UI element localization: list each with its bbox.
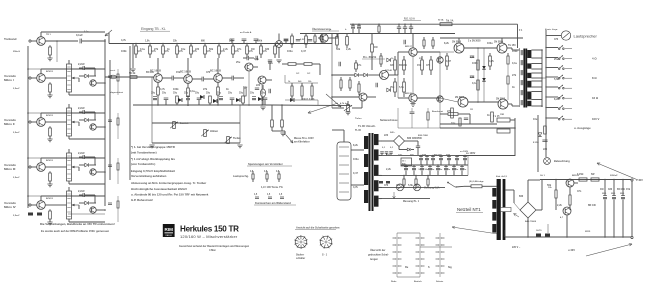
svg-text:10u: 10u [181,48,186,51]
svg-text:25u: 25u [173,92,178,95]
svg-text:2,2k: 2,2k [386,168,391,171]
svg-text:GL70: GL70 [536,230,542,232]
svg-text:220 V ~: 220 V ~ [512,246,521,249]
svg-text:220: 220 [195,48,200,51]
svg-text:Sig: Sig [448,266,452,269]
svg-text:TR 1: TR 1 [46,34,52,36]
svg-text:B30 C800/500: B30 C800/500 [407,138,423,140]
svg-text:25u: 25u [184,92,189,95]
svg-text:Mikro I: Mikro I [4,78,14,82]
svg-text:B40 C5000: B40 C5000 [525,220,537,223]
svg-text:47n: 47n [577,190,582,193]
svg-text:Mikro III: Mikro III [4,167,16,171]
svg-text:120/160 W – Mischverstärker: 120/160 W – Mischverstärker [180,234,238,239]
svg-text:2,5mV: 2,5mV [13,132,20,134]
svg-text:(mit Tonabnehmer): (mit Tonabnehmer) [131,151,157,155]
svg-text:25u: 25u [236,61,241,64]
svg-text:Beleuchtung: Beleuchtung [554,159,570,163]
svg-text:25u: 25u [390,86,395,89]
svg-text:R.L. 83,2 B: R.L. 83,2 B [363,55,376,59]
svg-text:2,5mV: 2,5mV [13,88,20,90]
svg-text:4,7k: 4,7k [160,88,165,91]
svg-text:8,2k: 8,2k [444,42,449,45]
svg-text:2200: 2200 [611,193,615,195]
svg-text:Schutz: Schutz [436,280,444,283]
svg-text:27k: 27k [203,88,208,91]
svg-text:47n: 47n [237,48,242,51]
svg-text:Abmessung an M.G. Entzerrergr: Abmessung an M.G. Entzerrergruppen-Ausg.… [131,181,207,185]
svg-text:u. Abstände 80 bis 120 und Re: u. Abstände 80 bis 120 und Re: Pst 150 T… [131,193,209,197]
svg-text:Klirrf. 0,4%: Klirrf. 0,4% [302,98,315,101]
svg-text:0,1u: 0,1u [84,68,89,70]
svg-text:RADIO: RADIO [165,234,172,237]
svg-text:Lautst.: Lautst. [180,121,189,125]
svg-text:Netzteil NT1: Netzteil NT1 [457,207,481,212]
svg-text:*) 1. bei Verstärkergruppe 150: *) 1. bei Verstärkergruppe 150TR [131,145,175,149]
svg-text:2200: 2200 [602,193,606,195]
svg-text:27k: 27k [154,48,159,51]
svg-text:an Punkt A: an Punkt A [240,31,252,34]
svg-text:OC: OC [307,73,311,75]
svg-text:BD137: BD137 [405,46,413,48]
svg-text:100k: 100k [121,50,127,53]
svg-text:Netzanschüsse: Netzanschüsse [380,119,398,122]
svg-text:15R: 15R [500,114,504,116]
svg-text:0,1uF: 0,1uF [76,33,83,37]
svg-text:Kab. 4x1,5: Kab. 4x1,5 [496,175,508,178]
svg-text:2N 3055: 2N 3055 [496,98,506,101]
svg-text:Ru: Ru [405,266,409,269]
svg-text:5,6k: 5,6k [408,184,413,187]
svg-text:Eingang 0,77mV Empfindlichke: Eingang 0,77mV Empfindlichkeit [131,169,175,173]
svg-text:Si 5A: Si 5A [438,19,444,22]
svg-text:0,3V: 0,3V [300,39,305,41]
svg-text:0,47: 0,47 [301,50,306,53]
svg-text:15k: 15k [176,71,181,74]
svg-text:330: 330 [265,48,270,51]
svg-text:25u: 25u [162,92,167,95]
svg-text:10u: 10u [533,118,538,121]
svg-text:BC413: BC413 [46,114,54,117]
svg-text:GL 1: GL 1 [540,175,546,177]
svg-text:2,2nF: 2,2nF [78,189,85,193]
svg-text:Lautsprechg.: Lautsprechg. [233,175,249,178]
svg-text:Tiefen: Tiefen [233,136,241,140]
svg-text:8,2k: 8,2k [268,62,273,65]
svg-text:15k: 15k [626,188,631,191]
svg-text:1R: 1R [470,109,473,111]
svg-text:2,2nF: 2,2nF [78,62,85,66]
svg-text:56k: 56k [386,154,391,157]
svg-text:2,5mV: 2,5mV [13,177,20,179]
svg-text:BC109: BC109 [434,154,442,157]
svg-text:Übersicht der: Übersicht der [370,249,385,252]
svg-text:25u: 25u [250,92,255,95]
svg-text:am Klirrfaktor: am Klirrfaktor [294,141,310,144]
svg-text:2200: 2200 [620,193,624,195]
svg-text:56k: 56k [209,48,214,51]
svg-text:Tiefen: Tiefen [355,118,362,120]
svg-text:Die Verstärkungen, Bandbreite: Die Verstärkungen, Bandbreite an 150 TR … [40,222,115,226]
svg-text:470: 470 [554,38,559,41]
svg-text:100k: 100k [472,62,478,65]
svg-text:1,9 / 100 Tonw. 7%: 1,9 / 100 Tonw. 7% [261,186,283,189]
svg-text:1M: 1M [374,46,377,49]
svg-text:2N 3055: 2N 3055 [452,41,462,44]
svg-text:100 V: 100 V [592,117,599,121]
svg-text:0,1u: 0,1u [472,82,477,85]
svg-text:0,1u: 0,1u [140,48,145,51]
svg-text:Höchstmögliche Aussteuerbarke: Höchstmögliche Aussteuerbarkeit 222mV [131,187,187,191]
svg-text:u. Ausgänge: u. Ausgänge [574,126,591,130]
svg-text:BD 130: BD 130 [588,205,597,207]
svg-text:Herkules 150 TR: Herkules 150 TR [180,224,239,233]
svg-text:BC413: BC413 [46,197,54,200]
svg-text:2 x 2N 3055: 2 x 2N 3055 [468,41,481,43]
svg-text:27k: 27k [512,74,517,77]
svg-text:1,5k: 1,5k [145,41,150,43]
svg-text:BC140: BC140 [385,69,393,72]
svg-text:Lautsprecher: Lautsprecher [574,34,598,39]
svg-text:ws-rt: ws-rt [110,69,115,72]
svg-text:1M: 1M [251,48,254,51]
svg-text:330: 330 [608,188,613,191]
svg-text:47n: 47n [357,64,362,67]
svg-text:E 250: E 250 [533,142,540,144]
svg-text:56k: 56k [547,184,552,187]
svg-text:56-1k: 56-1k [129,72,136,75]
svg-text:BC413: BC413 [46,159,54,162]
svg-text:25u: 25u [195,92,200,95]
svg-text:2,2k: 2,2k [346,48,351,51]
svg-text:Gezeichnet anhand der Bauteil-: Gezeichnet anhand der Bauteil-Unterlagen… [179,245,250,248]
svg-text:220: 220 [543,148,548,151]
svg-text:15k: 15k [417,64,422,67]
svg-text:100u: 100u [287,50,293,53]
svg-text:4,7k: 4,7k [489,60,494,63]
svg-text:TL DI Umsch.: TL DI Umsch. [358,124,376,128]
svg-text:470: 470 [384,184,389,187]
svg-text:330: 330 [422,154,427,157]
svg-text:220: 220 [384,134,389,137]
svg-text:47n: 47n [398,154,403,157]
svg-text:BC109: BC109 [146,71,154,74]
svg-text:2,2k: 2,2k [557,204,562,207]
svg-text:BD183: BD183 [572,175,580,177]
svg-text:4 Ω: 4 Ω [592,57,597,61]
svg-text:gedruckten Schal-: gedruckten Schal- [368,254,389,257]
svg-text:Höhen: Höhen [210,129,218,133]
svg-text:*) 1 mV abzgl. Rückkopplung b: *) 1 mV abzgl. Rückkopplung bis [131,157,175,161]
svg-text:3,3k: 3,3k [229,41,234,43]
svg-text:25u: 25u [151,92,156,95]
svg-text:Boucherot: Boucherot [432,110,443,113]
svg-text:5,6k: 5,6k [254,58,259,61]
svg-text:150k: 150k [257,41,263,43]
svg-text:Mikro II: Mikro II [4,122,15,126]
svg-text:0R15: 0R15 [585,231,591,233]
svg-text:Tü 150: Tü 150 [508,44,516,47]
svg-text:tungen: tungen [370,258,379,261]
svg-text:4,7k log: 4,7k log [340,102,349,105]
svg-text:R.G. 0,5 A: R.G. 0,5 A [404,18,415,21]
svg-text:BC109: BC109 [399,64,407,67]
svg-text:RIM: RIM [164,227,173,232]
svg-text:G.P. Ruhestrom!: G.P. Ruhestrom! [131,198,153,202]
svg-text:0,1u: 0,1u [512,62,517,65]
svg-text:0,1u: 0,1u [84,112,89,114]
svg-text:Es wurde auch auf der RIM-Prüf: Es wurde auch auf der RIM-Prüfkarte 150t… [41,229,109,233]
svg-text:220: 220 [256,84,261,87]
svg-text:Ruhe: Ruhe [391,281,397,283]
svg-text:0,1u: 0,1u [190,90,195,93]
svg-text:100u: 100u [487,42,493,45]
svg-text:25u: 25u [228,92,233,95]
svg-text:24V~: 24V~ [390,131,396,134]
svg-text:2N 3055: 2N 3055 [455,96,465,99]
svg-text:56k: 56k [336,48,341,51]
svg-text:8,2k: 8,2k [353,144,358,147]
svg-text:25u: 25u [396,184,401,187]
svg-text:BD138: BD138 [405,93,413,95]
svg-text:25u: 25u [217,92,222,95]
svg-text:BC109: BC109 [617,188,625,191]
svg-text:10u: 10u [451,122,456,125]
svg-text:8 Ω: 8 Ω [592,76,597,80]
svg-text:BC413: BC413 [46,70,54,73]
svg-text:8,2k: 8,2k [554,98,559,101]
svg-text:Messung 0,1A: Messung 0,1A [424,187,440,190]
svg-text:Messung PL. 1: Messung PL. 1 [403,201,420,203]
svg-text:u 40V: u 40V [568,248,575,252]
svg-text:Vorverstärkung aufdrehen: Vorverstärkung aufdrehen [131,174,167,178]
svg-text:Kontr. Ltspr.: Kontr. Ltspr. [545,28,558,31]
svg-text:5,6k: 5,6k [554,78,559,81]
svg-text:100k: 100k [173,88,179,91]
svg-text:(Si) 0,8A träge: (Si) 0,8A träge [469,180,484,183]
svg-text:100u: 100u [353,158,359,161]
svg-text:2 x 15: 2 x 15 [493,116,500,118]
svg-text:2200uF: 2200uF [610,175,618,177]
svg-text:B30 C800: B30 C800 [418,135,429,137]
svg-text:TL DI: TL DI [355,129,361,132]
svg-text:25u: 25u [554,58,559,61]
svg-text:2,2nF: 2,2nF [78,151,85,155]
svg-text:4,7k: 4,7k [353,186,358,189]
svg-text:0,1u: 0,1u [84,31,89,33]
svg-text:2N 3055: 2N 3055 [494,41,504,44]
svg-text:4,7k: 4,7k [121,39,126,42]
svg-text:0,1u: 0,1u [84,195,89,197]
svg-text:Spannungen am Verstärker: Spannungen am Verstärker [248,162,283,166]
svg-text:100k: 100k [512,50,518,53]
svg-text:2,2k: 2,2k [223,48,228,51]
svg-text:0,47: 0,47 [446,60,451,63]
svg-text:BC 109 B: BC 109 B [180,71,191,74]
svg-text:470: 470 [206,71,211,74]
svg-text:Betrieb: Betrieb [414,280,422,283]
svg-text:Kurzzeichen am Widerstand: Kurzzeichen am Widerstand [255,201,291,205]
svg-text:2,2nF: 2,2nF [78,106,85,110]
svg-text:0,47: 0,47 [353,172,358,175]
svg-text:470: 470 [426,64,431,67]
svg-text:5,6k: 5,6k [399,86,404,89]
svg-text:4 Mai: 4 Mai [209,248,216,252]
svg-text:Gl 1: Gl 1 [402,161,406,163]
svg-text:schalter: schalter [296,257,305,260]
svg-text:+ 40V: + 40V [636,178,643,182]
svg-text:0,1u: 0,1u [84,157,89,159]
svg-text:250mV: 250mV [13,51,21,53]
svg-text:1M: 1M [410,154,413,157]
svg-text:Tonband: Tonband [4,37,17,41]
svg-text:1M: 1M [600,188,603,191]
svg-text:Tal. 5A: Tal. 5A [446,20,454,23]
svg-text:25u: 25u [206,92,211,95]
svg-text:B40: B40 [519,195,524,198]
svg-text:330: 330 [390,64,395,67]
svg-text:25u: 25u [239,92,244,95]
svg-text:zu 100V: zu 100V [460,151,469,153]
svg-text:Eingang TB - KL: Eingang TB - KL [141,27,166,31]
svg-text:Mikro IV: Mikro IV [4,205,16,209]
svg-text:16 Ω: 16 Ω [592,96,599,100]
svg-text:2,5mV: 2,5mV [13,215,20,217]
svg-text:OC: OC [296,73,300,75]
svg-text:25u: 25u [261,92,266,95]
svg-text:Ansicht auf die Schaltseite ge: Ansicht auf die Schaltseite gesehen [296,226,340,230]
svg-text:BC 109 B: BC 109 B [210,70,221,73]
svg-text:S - 1: S - 1 [322,254,328,257]
svg-text:(von Tonband-KL): (von Tonband-KL) [131,162,155,166]
svg-text:abgeschirmt: abgeschirmt [110,91,123,94]
